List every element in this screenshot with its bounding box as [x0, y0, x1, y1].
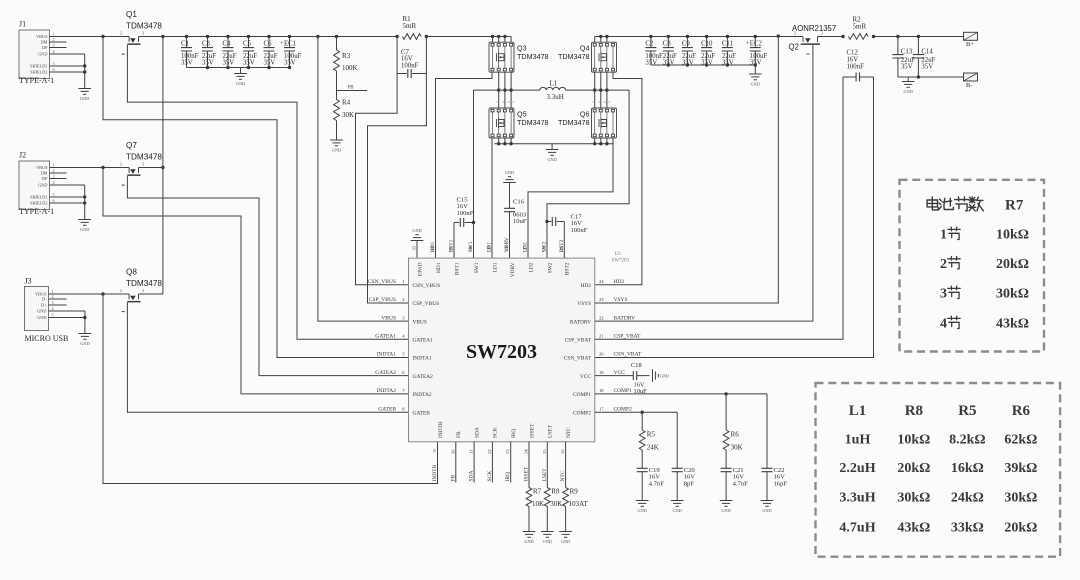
wire C1 leads — [186, 37, 188, 68]
capacitor C9 35V — [682, 48, 693, 51]
svg-text:CSP_VBAT: CSP_VBAT — [614, 334, 642, 340]
wire output cap bus — [651, 64, 755, 66]
svg-text:35V: 35V — [921, 64, 933, 71]
svg-text:VBUS: VBUS — [413, 319, 427, 325]
svg-text:SDA: SDA — [474, 427, 480, 438]
svg-text:3: 3 — [142, 288, 144, 293]
svg-text:C1: C1 — [181, 41, 189, 48]
svg-text:5: 5 — [53, 61, 55, 66]
svg-text:35V: 35V — [264, 59, 276, 66]
wire Q3 top pins — [493, 37, 512, 43]
junction C5 rail node — [247, 35, 250, 38]
svg-text:R9: R9 — [570, 488, 579, 496]
junction C17 to SW2 — [545, 220, 548, 223]
svg-text:100nF: 100nF — [457, 210, 474, 217]
wire Q7 drain to chain — [139, 167, 163, 169]
svg-text:L1: L1 — [849, 403, 867, 419]
svg-text:DP: DP — [42, 176, 48, 181]
svg-text:LD1: LD1 — [487, 242, 493, 252]
junction SW1 node 510.6 — [509, 88, 512, 91]
junction C1 rail node — [185, 35, 188, 38]
resistor R8 30K — [544, 488, 550, 507]
wire EC2 leads — [754, 37, 756, 66]
transistor Q1 TDM3478 — [129, 37, 138, 42]
junction R1 left node — [395, 35, 398, 38]
svg-text:GND: GND — [762, 508, 771, 513]
svg-text:GND: GND — [751, 82, 760, 87]
capacitor C19 16V 4.7nF — [637, 468, 648, 471]
wire C9 leads — [686, 37, 688, 66]
svg-text:VDRV: VDRV — [504, 237, 510, 252]
svg-text:R5: R5 — [958, 403, 976, 419]
junction SW1 node 504.4 — [503, 88, 506, 91]
svg-text:15: 15 — [542, 449, 547, 454]
capacitor C1 35V — [181, 48, 192, 51]
svg-text:10uF: 10uF — [513, 218, 527, 225]
svg-text:R7: R7 — [1005, 198, 1024, 214]
connector B+ pad — [964, 32, 978, 40]
junction J2 shield join 1 — [83, 195, 86, 198]
svg-text:100nF: 100nF — [401, 62, 419, 69]
svg-text:33: 33 — [412, 245, 417, 250]
svg-text:INDTB: INDTB — [438, 421, 444, 438]
svg-text:11: 11 — [469, 449, 474, 454]
svg-text:GND: GND — [80, 96, 89, 101]
svg-text:CSP_VBUS: CSP_VBUS — [413, 301, 440, 307]
svg-text:HD2: HD2 — [614, 279, 625, 285]
svg-text:INDTA1: INDTA1 — [413, 356, 432, 362]
svg-text:39kΩ: 39kΩ — [1004, 461, 1037, 476]
svg-text:DP: DP — [42, 45, 48, 50]
svg-text:C9: C9 — [682, 41, 691, 48]
svg-text:C18: C18 — [631, 362, 642, 369]
resistor R4 30K — [334, 100, 340, 121]
capacitor C3 35V — [202, 48, 213, 51]
wire Q4 bottom pins — [595, 72, 607, 90]
svg-text:17: 17 — [599, 406, 604, 411]
svg-text:VCC: VCC — [614, 370, 626, 376]
svg-text:30kΩ: 30kΩ — [996, 287, 1029, 302]
svg-text:VBUS: VBUS — [36, 34, 48, 39]
junction R2 right node — [872, 35, 875, 38]
svg-text:AONR21357: AONR21357 — [792, 24, 836, 33]
junction SW1 node 498.2 — [497, 88, 500, 91]
wire Q6 bottom pins — [595, 138, 607, 144]
ground J3 GND — [79, 334, 92, 340]
svg-text:LD2: LD2 — [523, 242, 529, 252]
svg-text:6: 6 — [53, 198, 55, 203]
svg-text:4: 4 — [940, 317, 947, 332]
svg-text:GATEA1: GATEA1 — [413, 338, 434, 344]
ground C19 GND — [636, 501, 649, 507]
svg-text:CSN_VBAT: CSN_VBAT — [564, 356, 592, 362]
transistor Q5 TDM3478 package — [493, 112, 512, 134]
svg-text:1uH: 1uH — [845, 433, 871, 448]
svg-text:VBUS: VBUS — [381, 315, 396, 321]
table battery-count vs R7 — [900, 180, 1045, 352]
svg-text:20kΩ: 20kΩ — [996, 257, 1029, 272]
svg-text:GND: GND — [38, 183, 47, 188]
svg-text:U3: U3 — [615, 252, 622, 257]
svg-text:TDM3478: TDM3478 — [558, 118, 590, 127]
transistor Q2 AONR21357 — [803, 37, 818, 42]
capacitor C20 16V 8pF — [672, 468, 683, 471]
svg-text:COMP2: COMP2 — [614, 406, 633, 412]
svg-text:TDM3478: TDM3478 — [558, 52, 590, 61]
junction C3 bus node — [206, 66, 209, 69]
svg-text:20kΩ: 20kΩ — [897, 461, 930, 476]
svg-text:C12: C12 — [847, 50, 859, 57]
svg-text:SW7203: SW7203 — [466, 341, 537, 363]
svg-text:C8: C8 — [663, 41, 672, 48]
svg-text:33kΩ: 33kΩ — [951, 521, 984, 536]
svg-text:100K: 100K — [342, 64, 358, 72]
svg-text:3: 3 — [53, 42, 55, 47]
svg-text:14: 14 — [524, 449, 529, 454]
wire GATEA2 route Q7 gate — [127, 176, 408, 376]
svg-text:IRQ: IRQ — [511, 429, 517, 438]
wire R8 leads — [546, 442, 548, 532]
svg-text:TDM3478: TDM3478 — [126, 22, 162, 31]
wire input cap bus — [187, 67, 290, 69]
wire VBUS pin route — [318, 37, 409, 322]
svg-text:Q8: Q8 — [126, 268, 137, 277]
svg-text:Q1: Q1 — [126, 10, 137, 19]
svg-text:20kΩ: 20kΩ — [1004, 521, 1037, 536]
wire BAT rail — [874, 36, 964, 38]
svg-text:Q2: Q2 — [789, 43, 799, 52]
svg-text:COMP2: COMP2 — [573, 410, 591, 416]
svg-text:SW2: SW2 — [542, 241, 548, 252]
ground R9 GND — [559, 532, 572, 538]
svg-text:SW1: SW1 — [474, 262, 480, 273]
capacitor C13 22uF 35V — [892, 55, 903, 58]
capacitor C22 16V 16pF — [762, 468, 773, 471]
junction C14 rail node — [917, 35, 920, 38]
wire C3 leads — [207, 37, 209, 68]
junction gnd bus node 504.4 — [503, 142, 506, 145]
svg-text:C6: C6 — [264, 41, 273, 48]
transistor Q6 TDM3478 package — [595, 112, 613, 134]
junction C13 rail node — [896, 35, 899, 38]
svg-text:INDTA1: INDTA1 — [377, 352, 397, 358]
svg-text:GATEA2: GATEA2 — [375, 370, 396, 376]
svg-text:SHIELD1: SHIELD1 — [30, 195, 47, 200]
capacitor C17 16V 100nF — [552, 217, 555, 226]
svg-text:5mR: 5mR — [403, 22, 417, 30]
capacitor C7 16V 100nF — [408, 69, 411, 78]
wire BST2 pin route — [563, 222, 565, 259]
wire Q2 gate tick — [807, 53, 810, 55]
junction C8 bus node — [667, 63, 670, 66]
svg-text:16pF: 16pF — [774, 480, 788, 487]
junction C11 rail node — [726, 35, 729, 38]
svg-text:BATDRV: BATDRV — [614, 315, 636, 321]
svg-text:35V: 35V — [223, 59, 235, 66]
wire R7 leads — [528, 442, 530, 532]
junction R1 right node — [425, 35, 428, 38]
wire R5 leads — [641, 412, 643, 500]
ground battery GND — [902, 82, 915, 88]
svg-text:FB: FB — [456, 431, 462, 438]
svg-text:100nF: 100nF — [847, 64, 865, 71]
svg-text:L1: L1 — [550, 80, 558, 88]
capacitor C5 35V — [243, 48, 254, 51]
svg-text:GND: GND — [638, 508, 647, 513]
svg-text:HD1: HD1 — [430, 242, 436, 253]
svg-text:3: 3 — [52, 300, 54, 305]
junction Q3 drain node 498.2 — [497, 35, 500, 38]
svg-text:103AT: 103AT — [569, 500, 589, 508]
svg-text:10K: 10K — [532, 500, 544, 508]
svg-text:GND: GND — [80, 341, 89, 346]
ground input bank GND — [234, 74, 247, 80]
svg-text:J3: J3 — [25, 277, 32, 286]
inductor L1 3.3uH — [540, 87, 566, 90]
junction VSYS rail tap — [777, 34, 780, 37]
svg-text:LD2: LD2 — [528, 262, 534, 272]
capacitor C14 22uF 35V — [913, 55, 924, 58]
svg-text:GATEB: GATEB — [378, 406, 396, 412]
svg-text:R3: R3 — [342, 52, 351, 60]
svg-text:43kΩ: 43kΩ — [897, 521, 930, 536]
svg-text:2: 2 — [120, 288, 122, 293]
svg-text:INDTA2: INDTA2 — [413, 392, 432, 398]
svg-text:GND: GND — [543, 539, 552, 544]
svg-text:35V: 35V — [901, 64, 913, 71]
svg-text:VCC: VCC — [580, 374, 591, 380]
junction J1 VBUS tap — [101, 35, 104, 38]
svg-text:CSP_VBUS: CSP_VBUS — [369, 297, 396, 303]
svg-text:DM: DM — [41, 171, 48, 176]
wire SW1 pin route — [473, 90, 475, 258]
svg-text:C4: C4 — [223, 41, 232, 48]
svg-text:TDM3478: TDM3478 — [517, 118, 549, 127]
ground C21 GND — [720, 501, 733, 507]
capacitor C15 16V 100nF — [460, 218, 463, 227]
svg-text:HD2: HD2 — [581, 283, 592, 289]
svg-text:NTC: NTC — [566, 427, 572, 438]
svg-text:3: 3 — [821, 30, 823, 35]
transistor Q4 TDM3478 package — [595, 46, 613, 68]
ground R7 GND — [523, 532, 536, 538]
svg-text:INDTA2: INDTA2 — [377, 388, 397, 394]
wire COMP2 net — [595, 411, 677, 413]
svg-text:GND: GND — [37, 309, 46, 314]
svg-text:2: 2 — [53, 37, 55, 42]
svg-text:22: 22 — [599, 315, 604, 320]
svg-text:C13: C13 — [901, 49, 913, 56]
svg-text:5: 5 — [52, 312, 54, 317]
svg-text:12: 12 — [487, 449, 492, 454]
svg-text:2: 2 — [940, 257, 947, 272]
wire HD1 route Q3 gate — [436, 72, 493, 258]
capacitor C4 35V — [223, 48, 234, 51]
svg-text:35V: 35V — [645, 59, 657, 66]
junction EC2 rail node — [754, 35, 757, 38]
svg-text:LSET: LSET — [548, 424, 554, 438]
svg-text:10kΩ: 10kΩ — [897, 433, 930, 448]
junction C4 rail node — [226, 35, 229, 38]
wire C12 links — [843, 76, 874, 78]
junction C15 to SW1 — [472, 221, 475, 224]
junction gnd bus node 606.4 — [605, 142, 608, 145]
wire CSN_VBAT route — [595, 77, 874, 358]
resistor R3 100K — [334, 50, 340, 71]
svg-text:D+: D+ — [41, 303, 47, 308]
junction C11 bus node — [726, 63, 729, 66]
svg-text:13: 13 — [505, 449, 510, 454]
svg-text:SHIELD2: SHIELD2 — [30, 70, 47, 75]
junction gnd bus node 594.2 — [593, 142, 596, 145]
junction J3 gnd join — [83, 316, 86, 319]
ground J1 GND — [78, 89, 91, 95]
wire Q5 top pins — [499, 90, 511, 108]
ground R8 GND — [541, 532, 554, 538]
svg-text:35V: 35V — [202, 59, 214, 66]
svg-text:24kΩ: 24kΩ — [951, 491, 984, 506]
svg-text:2: 2 — [52, 294, 54, 299]
svg-text:BST2: BST2 — [565, 262, 571, 275]
svg-text:30K: 30K — [342, 111, 354, 119]
svg-text:GND: GND — [660, 374, 669, 379]
svg-text:2: 2 — [53, 168, 55, 173]
svg-text:J1: J1 — [19, 20, 26, 29]
wire J2 pin stubs — [50, 168, 130, 220]
junction J3 VBUS tap — [101, 292, 104, 295]
svg-text:C11: C11 — [722, 41, 733, 48]
svg-text:GND: GND — [80, 227, 89, 232]
capacitor C8 35V — [663, 48, 674, 51]
wire J1 pin stubs — [50, 37, 130, 89]
svg-text:30K: 30K — [731, 444, 743, 452]
svg-text:3: 3 — [940, 287, 947, 302]
wire BATDRV route Q2 gate — [595, 45, 813, 321]
svg-text:6: 6 — [53, 67, 55, 72]
svg-text:J2: J2 — [19, 151, 26, 160]
junction C8 rail node — [667, 35, 670, 38]
ground bridge GND — [546, 150, 559, 156]
wire C10 leads — [706, 37, 708, 66]
svg-text:C2: C2 — [645, 41, 654, 48]
svg-text:GND: GND — [505, 170, 514, 175]
junction gnd bus node 510.6 — [509, 142, 512, 145]
wire C8 leads — [667, 37, 669, 66]
wire C17 links — [547, 221, 564, 223]
junction SW2 node 594.2 — [593, 88, 596, 91]
resistor R1 5mR — [403, 34, 422, 40]
resistor R9 103AT — [563, 488, 569, 507]
wire C7 leads — [397, 37, 426, 74]
capacitor EC1 35V — [284, 48, 295, 51]
svg-text:24: 24 — [599, 279, 604, 284]
label table1 header 电池节数 — [927, 197, 938, 210]
wire C4 leads — [227, 37, 229, 68]
svg-text:2: 2 — [120, 30, 122, 35]
svg-text:R8: R8 — [551, 488, 560, 496]
svg-text:B-: B- — [966, 82, 973, 89]
svg-text:SW7203: SW7203 — [612, 259, 630, 264]
svg-text:C10: C10 — [701, 41, 713, 48]
ground C18 GND — [653, 369, 659, 382]
svg-text:GND: GND — [721, 508, 730, 513]
transistor Q8 TDM3478 — [129, 294, 138, 299]
svg-text:Q7: Q7 — [126, 141, 137, 150]
wire Q3 bottom pins — [499, 72, 511, 90]
svg-text:GND: GND — [38, 52, 47, 57]
junction Q4 drain node 606.4 — [605, 35, 608, 38]
wire GATEA1 route Q1 gate — [127, 45, 408, 339]
svg-text:3: 3 — [53, 173, 55, 178]
wire VSYS rail start at Q4 — [595, 36, 651, 38]
svg-text:GND: GND — [561, 539, 570, 544]
ground C16 GND — [503, 177, 516, 183]
svg-text:35V: 35V — [181, 59, 193, 66]
wire INDTA2 route — [103, 168, 409, 394]
junction COMP1 R6 tap — [724, 392, 727, 395]
junction EC1 rail node — [288, 35, 291, 38]
junction J2 shield join 2 — [83, 201, 86, 204]
resistor R7 10K — [526, 488, 532, 507]
svg-text:ISSET: ISSET — [529, 423, 535, 438]
svg-text:R6: R6 — [1012, 403, 1031, 419]
capacitor C16 0603 10uF — [504, 208, 515, 211]
svg-text:BST1: BST1 — [454, 262, 460, 275]
wire C13 leads — [897, 37, 899, 78]
svg-text:R7: R7 — [533, 488, 542, 496]
wire Q1 drain to VBUS rail — [139, 36, 398, 38]
svg-text:R6: R6 — [731, 431, 740, 439]
svg-text:GND: GND — [332, 148, 341, 153]
resistor R6 30K — [723, 430, 729, 450]
wire CSN_VBUS route — [356, 74, 409, 285]
ground C22 GND — [761, 501, 774, 507]
wire SW2 node rail — [566, 89, 629, 91]
wire SW1 node rail — [474, 89, 540, 91]
svg-text:R8: R8 — [905, 403, 923, 419]
junction Q4 drain node 600.3 — [599, 35, 602, 38]
svg-text:+: + — [280, 40, 284, 47]
junction J2 VBUS tap — [101, 166, 104, 169]
svg-text:19: 19 — [599, 370, 604, 375]
wire C6 leads — [268, 37, 270, 68]
junction VBUS chain at Q1 rail — [161, 35, 164, 38]
wire HD2 route Q4 gate — [595, 72, 642, 285]
ground R4 GND — [330, 140, 343, 146]
wire COMP1 net — [595, 393, 767, 395]
svg-text:8.2kΩ: 8.2kΩ — [949, 433, 986, 448]
svg-text:3: 3 — [142, 161, 144, 166]
svg-text:1: 1 — [53, 162, 55, 167]
table L1 R8 R5 R6 — [816, 383, 1061, 557]
wire R9 leads — [565, 442, 567, 532]
wire VSYS route — [595, 36, 779, 303]
svg-text:2.2uH: 2.2uH — [839, 461, 875, 476]
svg-text:GND: GND — [673, 508, 682, 513]
wire GATEB route Q8 gate — [127, 302, 408, 412]
junction EC2 bus node — [754, 63, 757, 66]
svg-text:1: 1 — [940, 228, 947, 243]
svg-text:BATDRV: BATDRV — [570, 319, 591, 325]
ground C20 GND — [671, 501, 684, 507]
junction C6 rail node — [267, 35, 270, 38]
svg-text:SCK: SCK — [493, 427, 499, 438]
wire C20 leads — [676, 412, 678, 500]
svg-text:C3: C3 — [202, 41, 211, 48]
svg-text:30K: 30K — [550, 500, 562, 508]
svg-text:43kΩ: 43kΩ — [996, 317, 1029, 332]
wire VBUS rail end at Q3 — [426, 36, 511, 38]
